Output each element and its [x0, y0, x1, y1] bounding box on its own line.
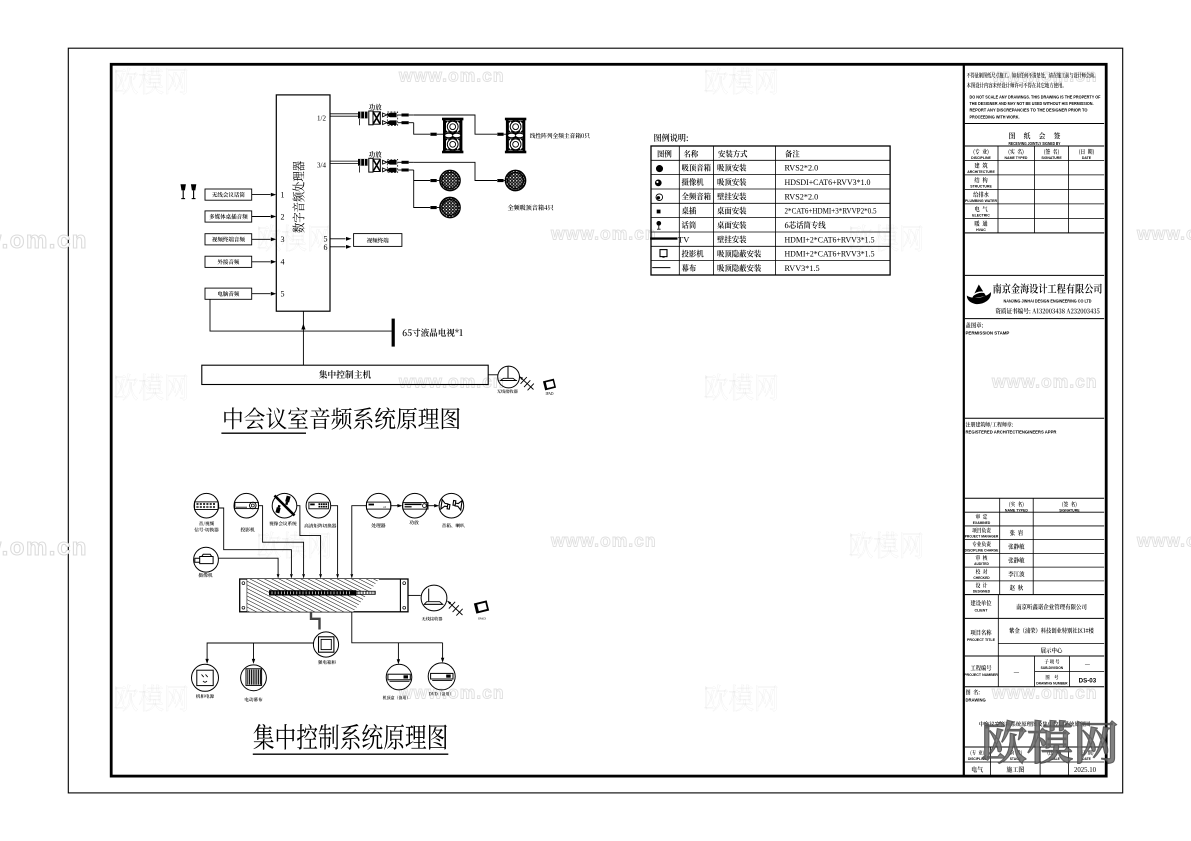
svg-text:2*CAT6+HDMI+3*RVVP2*0.5: 2*CAT6+HDMI+3*RVVP2*0.5: [785, 207, 877, 216]
svg-text:NAME TYPED: NAME TYPED: [1005, 508, 1028, 512]
svg-text:4: 4: [281, 258, 285, 267]
svg-text:IPAD: IPAD: [478, 617, 486, 621]
svg-text:ELECTRIC: ELECTRIC: [972, 214, 990, 218]
svg-text:www.om.cn: www.om.cn: [550, 224, 657, 244]
svg-text:2: 2: [281, 212, 285, 221]
svg-text:cd: cd: [383, 505, 386, 509]
svg-text:EXAMINED: EXAMINED: [973, 521, 991, 525]
svg-text:SIGNATURE: SIGNATURE: [1041, 156, 1062, 160]
svg-text:DO NOT SCALE ANY DRAWINGS. THI: DO NOT SCALE ANY DRAWINGS. THIS DRAWING …: [970, 95, 1101, 100]
svg-text:5: 5: [281, 290, 285, 299]
svg-text:www.om.cn: www.om.cn: [991, 66, 1098, 86]
svg-text:PLUMBING WATER: PLUMBING WATER: [965, 199, 997, 203]
svg-text:www.om.cn: www.om.cn: [1136, 224, 1191, 244]
svg-text:PROCEEDING WITH WORK.: PROCEEDING WITH WORK.: [970, 114, 1020, 119]
svg-text:www.om.cn: www.om.cn: [550, 531, 657, 551]
svg-text:PROJECT NUMBER: PROJECT NUMBER: [964, 673, 998, 677]
svg-text:THE DESIGNER AND MAY NOT BE U: THE DESIGNER AND MAY NOT BE USED WITHOUT…: [970, 101, 1094, 106]
svg-text:DATE: DATE: [1082, 757, 1092, 761]
svg-text:DATE: DATE: [1082, 156, 1092, 160]
svg-text:PROJECT TITLE: PROJECT TITLE: [967, 638, 996, 642]
svg-text:2025.10: 2025.10: [1074, 767, 1097, 774]
svg-text:DISCIPLINE CHARGE: DISCIPLINE CHARGE: [965, 548, 1000, 552]
svg-text:CHECKED: CHECKED: [973, 576, 990, 580]
svg-text:STRUCTURE: STRUCTURE: [970, 185, 992, 189]
svg-text:HDMI+2*CAT6+RVV3*1.5: HDMI+2*CAT6+RVV3*1.5: [785, 235, 875, 244]
svg-text:NANJING JINHAI DESIGN ENGINEER: NANJING JINHAI DESIGN ENGINEERING CO LTD: [1004, 298, 1092, 304]
svg-text:www.om.cn: www.om.cn: [1136, 531, 1191, 551]
svg-text:RVS2*2.0: RVS2*2.0: [785, 164, 819, 173]
svg-text:CLIENT: CLIENT: [975, 608, 989, 612]
svg-text:DISCIPLINE: DISCIPLINE: [971, 156, 991, 160]
svg-text:TV: TV: [678, 234, 690, 244]
svg-text:www.om.cn: www.om.cn: [991, 372, 1098, 392]
svg-text:HDSDI+CAT6+RVV3*1.0: HDSDI+CAT6+RVV3*1.0: [785, 178, 871, 187]
svg-text:NAME TYPED: NAME TYPED: [1005, 156, 1028, 160]
svg-text:www.om.cn: www.om.cn: [0, 227, 88, 254]
svg-text:1/2: 1/2: [317, 115, 326, 123]
svg-text:IPAD: IPAD: [545, 392, 553, 396]
svg-text:DESIGNED: DESIGNED: [973, 590, 991, 594]
svg-text:REGISTERED ARCHITECT/ENGINEERS: REGISTERED ARCHITECT/ENGINEERS APPR: [966, 429, 1057, 434]
svg-text:HDMI+2*CAT6+RVV3*1.5: HDMI+2*CAT6+RVV3*1.5: [785, 250, 875, 259]
svg-text:SIGNATURE: SIGNATURE: [1059, 508, 1080, 512]
svg-text:SUB-DIVISION: SUB-DIVISION: [1041, 666, 1064, 670]
svg-text:1: 1: [281, 190, 285, 199]
svg-text:PERMISSION STAMP: PERMISSION STAMP: [966, 331, 1010, 336]
svg-text:HVAC: HVAC: [976, 228, 986, 232]
svg-text:3: 3: [281, 235, 285, 244]
svg-text:www.om.cn: www.om.cn: [0, 534, 88, 561]
svg-text:RVV3*1.5: RVV3*1.5: [785, 264, 820, 273]
svg-text:RVS2*2.0: RVS2*2.0: [785, 192, 819, 201]
svg-text:RECEIVING JOINTLY SIGNED BY: RECEIVING JOINTLY SIGNED BY: [1009, 141, 1061, 146]
svg-text:www.om.cn: www.om.cn: [991, 683, 1098, 703]
svg-text:AUDITED: AUDITED: [974, 562, 989, 566]
svg-text:www.om.cn: www.om.cn: [398, 66, 505, 86]
svg-text:3/4: 3/4: [317, 162, 326, 170]
svg-text:DRAWING: DRAWING: [966, 698, 986, 703]
svg-text:ARCHITECTURE: ARCHITECTURE: [967, 170, 995, 174]
svg-text:PROJECT MANAGER: PROJECT MANAGER: [965, 535, 999, 539]
svg-text:DRAWING NUMBER: DRAWING NUMBER: [1036, 681, 1068, 685]
svg-text:6: 6: [324, 243, 328, 252]
svg-text:REPORT ANY DISCREPANCIES TO: REPORT ANY DISCREPANCIES TO THE DESIGNER…: [970, 108, 1088, 113]
svg-text:DS-03: DS-03: [1079, 678, 1097, 685]
